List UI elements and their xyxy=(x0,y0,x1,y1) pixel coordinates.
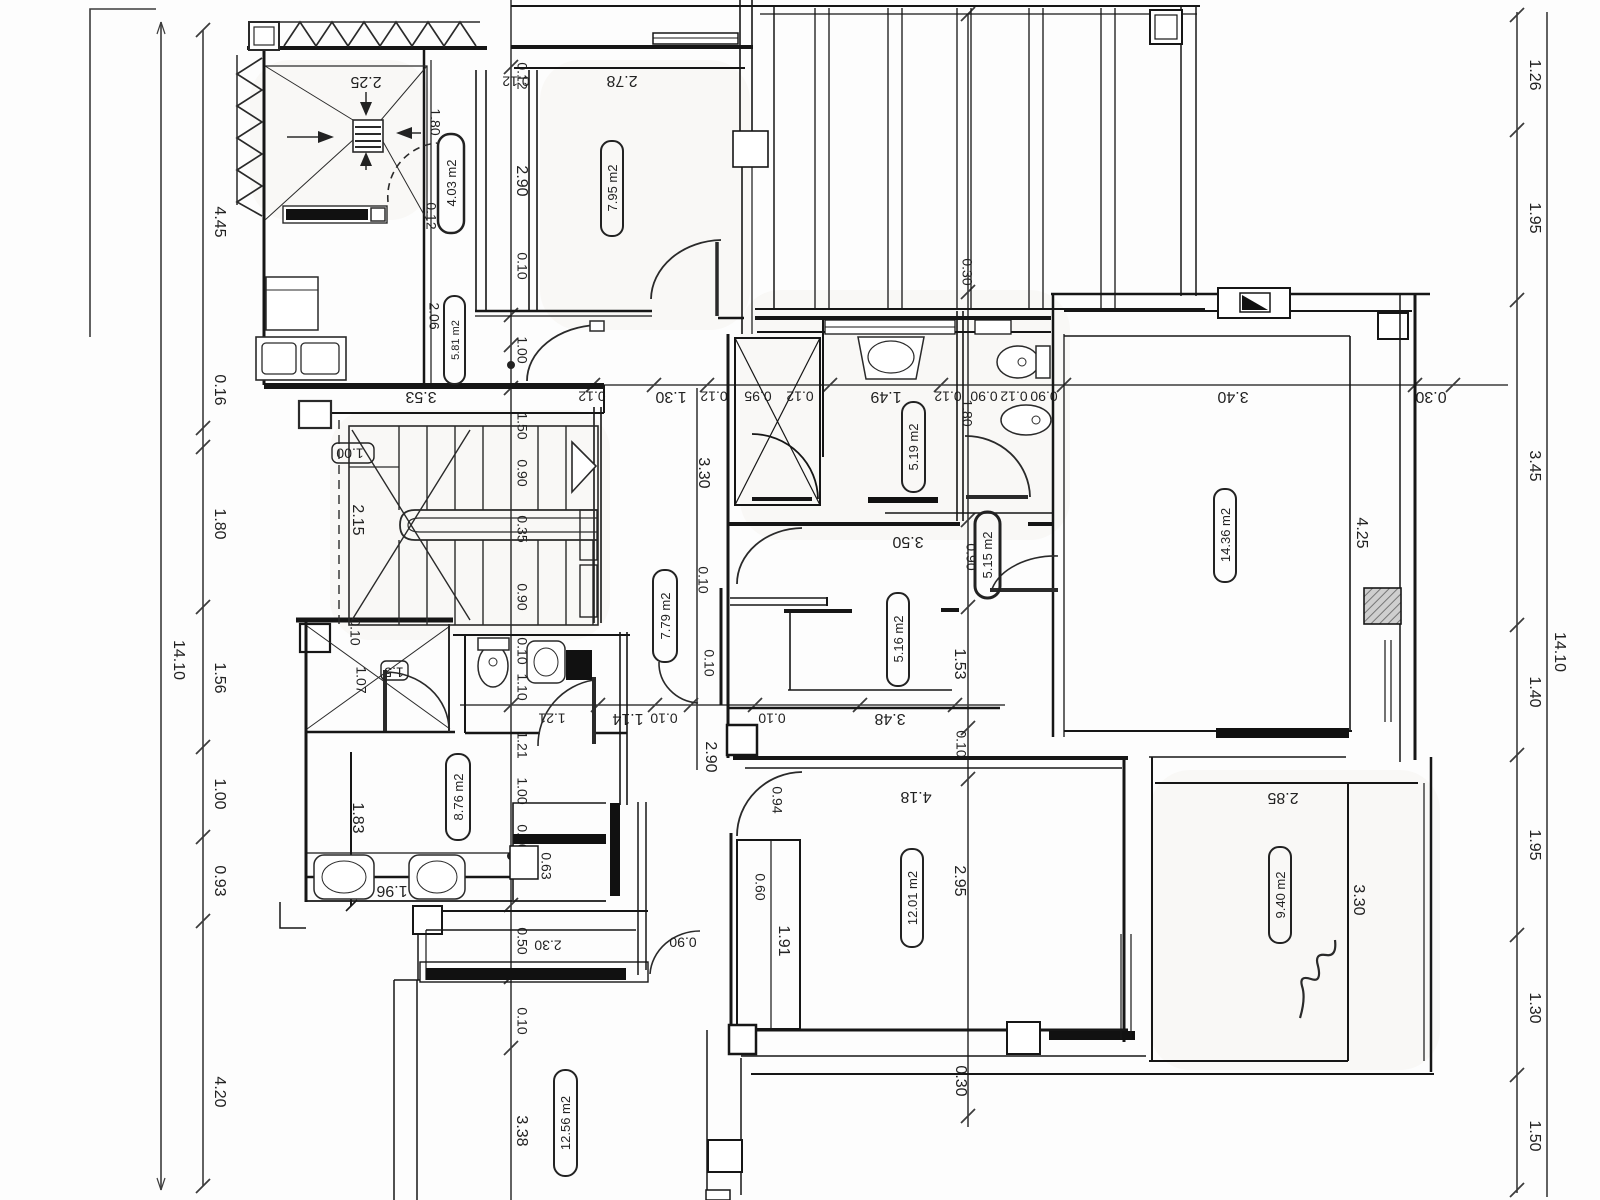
hall walls right of storage xyxy=(637,802,639,975)
big room hatch square xyxy=(1364,588,1401,624)
wall stub x604 xyxy=(603,385,605,413)
pillar under wall xyxy=(299,401,331,428)
svg-text:12.56 m2: 12.56 m2 xyxy=(558,1096,573,1150)
wc room left wall xyxy=(464,635,466,733)
svg-text:3.53: 3.53 xyxy=(405,388,436,405)
wall stub left of 7.95 right wall xyxy=(718,317,744,320)
wc door leaf and arc xyxy=(592,677,596,744)
porch black band xyxy=(426,968,626,980)
svg-text:12.01 m2: 12.01 m2 xyxy=(905,871,920,925)
stairs middle rail xyxy=(400,510,598,540)
deck joist 2 xyxy=(887,8,889,308)
terrace arrow right xyxy=(404,132,421,134)
svg-text:5.81 m2: 5.81 m2 xyxy=(450,320,462,360)
wardrobe xyxy=(737,840,800,1029)
porch planter box xyxy=(413,906,442,934)
svg-text:1.14: 1.14 xyxy=(612,710,643,727)
wall under hall (y311) xyxy=(475,310,652,313)
room label 14.36 m2 xyxy=(1214,489,1236,582)
svg-text:0.12: 0.12 xyxy=(1000,388,1027,404)
big room inner top line xyxy=(1064,335,1350,337)
room label 5.19 m2 xyxy=(902,402,925,492)
lower rooms top wall B xyxy=(453,634,630,636)
room label 7.95 m2 xyxy=(601,141,623,236)
stairs X cross xyxy=(352,430,470,620)
svg-text:0.12: 0.12 xyxy=(502,73,529,89)
bath bidet xyxy=(1001,405,1051,435)
svg-text:1.80: 1.80 xyxy=(427,108,443,135)
room 9.40 outer right wall xyxy=(1430,757,1433,1072)
big room inner right line xyxy=(1349,336,1351,731)
room 9.40 top lines xyxy=(1149,756,1346,758)
svg-text:14.10: 14.10 xyxy=(170,640,187,680)
deck joist 5 xyxy=(1100,8,1102,308)
deck joist 1 xyxy=(814,8,816,308)
svg-text:2.15: 2.15 xyxy=(349,504,366,535)
right dimension chain line xyxy=(1516,12,1518,1193)
svg-text:1.83: 1.83 xyxy=(349,802,366,833)
porch top wall xyxy=(442,910,648,912)
window sill band lower middle xyxy=(1049,1031,1135,1040)
room label 12.56 m2 xyxy=(554,1070,577,1176)
black tick on dim line xyxy=(941,608,959,612)
terrace arrow top xyxy=(365,92,367,106)
terrace bench xyxy=(283,206,387,223)
svg-text:1.80: 1.80 xyxy=(211,508,228,539)
terrace right wall xyxy=(423,48,426,385)
page corner mark top-left xyxy=(90,9,156,337)
porch door arc xyxy=(650,931,700,974)
corridor vertical dim line xyxy=(696,388,698,770)
svg-text:1.00: 1.00 xyxy=(514,336,530,363)
stairs landing line xyxy=(349,466,399,468)
wc room right wall double xyxy=(619,632,621,805)
room label 5.16 m2 xyxy=(887,593,909,686)
svg-text:3.38: 3.38 xyxy=(513,1115,530,1146)
label 1.00 stairs box xyxy=(332,443,374,463)
kitchen sink unit xyxy=(256,337,346,380)
terrace X diagonal 1 xyxy=(265,66,427,220)
wc toilet lower xyxy=(478,645,508,687)
svg-text:0.10: 0.10 xyxy=(701,649,717,676)
deck joist 4 xyxy=(1028,8,1030,308)
room label 5.81 m2 xyxy=(444,296,465,384)
svg-text:0.63: 0.63 xyxy=(538,852,554,879)
svg-text:3.30: 3.30 xyxy=(695,457,712,488)
kitchen cabinet xyxy=(266,277,318,330)
bath shelf band xyxy=(868,497,938,503)
svg-text:2.06: 2.06 xyxy=(426,302,442,329)
room 5.16 shelf lines xyxy=(730,597,827,599)
svg-text:1.50: 1.50 xyxy=(1526,1120,1543,1151)
center-right vertical dimension line xyxy=(967,14,969,1127)
overall left dimension line 14.10 xyxy=(160,22,162,1190)
room label 4.03 m2 xyxy=(438,134,464,233)
corridor right wall lower xyxy=(720,588,723,705)
room 12.01 bottom wall xyxy=(744,1029,1128,1032)
big room bottom wall xyxy=(1064,730,1352,732)
shower door arc xyxy=(752,434,818,499)
corridor left wall double xyxy=(593,407,595,623)
svg-text:0.30: 0.30 xyxy=(959,258,975,285)
room label 9.40 m2 xyxy=(1269,847,1291,943)
svg-text:0.30: 0.30 xyxy=(1415,388,1446,405)
X room right wall xyxy=(448,624,450,732)
svg-text:1.96: 1.96 xyxy=(376,882,407,899)
svg-text:1.26: 1.26 xyxy=(1526,59,1543,90)
room label 5.15 m2 xyxy=(975,512,1000,598)
svg-text:3.40: 3.40 xyxy=(1217,388,1248,405)
lower terrace right lines xyxy=(706,1030,708,1200)
svg-text:1.53: 1.53 xyxy=(951,648,968,679)
svg-text:5.16 m2: 5.16 m2 xyxy=(891,616,906,663)
svg-text:7.95 m2: 7.95 m2 xyxy=(605,165,620,212)
svg-text:4.20: 4.20 xyxy=(211,1076,228,1107)
big room left wall xyxy=(1052,294,1055,737)
svg-text:0.12: 0.12 xyxy=(578,388,605,404)
left chain ticks xyxy=(196,23,210,1193)
svg-text:1.00: 1.00 xyxy=(211,778,228,809)
svg-text:1.00: 1.00 xyxy=(514,777,530,804)
svg-text:1.80: 1.80 xyxy=(959,399,975,426)
big room window sill band xyxy=(1216,728,1349,738)
bath small partition stub xyxy=(822,320,824,457)
svg-text:4.25: 4.25 xyxy=(1353,517,1370,548)
center vline ticks xyxy=(504,60,518,1055)
shower room left wall xyxy=(727,334,730,524)
svg-text:1.40: 1.40 xyxy=(1526,676,1543,707)
svg-text:5.15 m2: 5.15 m2 xyxy=(980,532,995,579)
svg-text:1.21: 1.21 xyxy=(514,731,530,758)
svg-text:0.90: 0.90 xyxy=(514,583,530,610)
svg-text:0.10: 0.10 xyxy=(514,1007,530,1034)
room 12.01 corner post xyxy=(727,725,757,755)
corridor furniture xyxy=(580,510,597,560)
big room right outer wall xyxy=(1414,294,1417,760)
svg-text:2.90: 2.90 xyxy=(513,165,530,196)
svg-text:1.91: 1.91 xyxy=(775,925,792,956)
svg-text:0.93: 0.93 xyxy=(211,865,228,896)
stairs treads lower xyxy=(399,540,593,625)
porch step left xyxy=(280,902,306,928)
deck joist 3 xyxy=(956,8,958,308)
storage outline xyxy=(513,803,606,900)
svg-text:0.16: 0.16 xyxy=(211,374,228,405)
chimney square on deck xyxy=(1150,10,1182,44)
svg-text:1.95: 1.95 xyxy=(1526,202,1543,233)
svg-text:14.36 m2: 14.36 m2 xyxy=(1218,508,1233,562)
stairs dashed line xyxy=(338,420,340,628)
svg-text:3.30: 3.30 xyxy=(1350,884,1367,915)
big room top wall outer xyxy=(1051,293,1430,296)
room 7.95 top wall band xyxy=(511,45,753,49)
room 12.01 right wall xyxy=(1123,758,1126,1042)
lower-left small rect xyxy=(708,1140,742,1172)
svg-text:0.10: 0.10 xyxy=(514,252,530,279)
small room X cross xyxy=(307,626,450,729)
svg-text:0.10: 0.10 xyxy=(347,618,363,645)
main thick wall at y=385 xyxy=(264,383,604,389)
room 9.40 left wall xyxy=(1151,757,1153,1061)
wc black box xyxy=(566,650,592,680)
room label 12.01 m2 xyxy=(901,849,923,947)
porch left edge lines xyxy=(417,934,419,980)
left dimension chain line xyxy=(202,30,204,1186)
svg-text:3.48: 3.48 xyxy=(874,710,905,727)
svg-text:1.49: 1.49 xyxy=(870,388,901,405)
horizontal dimension chain upper xyxy=(265,384,1508,386)
deck bottom edge xyxy=(755,308,1205,310)
lower rooms top wall A xyxy=(296,618,453,623)
zigzag hatch top xyxy=(284,22,476,46)
room 7.95 top window xyxy=(653,33,738,44)
X room / wc bottom wall xyxy=(306,731,455,734)
wall between bathrooms xyxy=(956,311,958,521)
svg-text:0.12: 0.12 xyxy=(700,388,727,404)
room label 7.79 m2 xyxy=(653,570,677,662)
chimney box top-left xyxy=(249,22,279,50)
svg-text:1.56: 1.56 xyxy=(211,662,228,693)
svg-text:1.30: 1.30 xyxy=(1526,992,1543,1023)
bath toilet top xyxy=(997,346,1039,378)
stairs direction arrow xyxy=(572,442,596,492)
svg-text:5.19 m2: 5.19 m2 xyxy=(906,424,921,471)
hall door arc A xyxy=(527,325,597,381)
svg-text:0.10: 0.10 xyxy=(953,730,969,757)
svg-text:4.45: 4.45 xyxy=(211,206,228,237)
stairwell top wall inner line xyxy=(299,412,604,414)
big room vent box xyxy=(1218,288,1290,318)
terrace left outer wall xyxy=(263,48,266,385)
dim line x351 in 1.83 room xyxy=(350,752,352,906)
room 12.01 top wall xyxy=(733,756,1128,760)
wc sink lower xyxy=(527,641,565,683)
terrace top wall xyxy=(247,46,487,50)
svg-text:2.30: 2.30 xyxy=(534,937,561,953)
room 5.16 left wall xyxy=(727,524,730,758)
room label 8.76 m2 xyxy=(446,754,470,840)
washbasin counter lines xyxy=(306,852,530,854)
X room door leaf and arc xyxy=(383,670,387,731)
left outer wall lower xyxy=(305,620,308,902)
stairs outline xyxy=(349,426,598,625)
svg-text:4.18: 4.18 xyxy=(900,788,931,805)
svg-text:2.25: 2.25 xyxy=(350,73,381,90)
handwritten 123 squiggle xyxy=(1300,940,1335,1018)
bathroom top wall window 1 xyxy=(825,320,955,334)
svg-text:1.00: 1.00 xyxy=(336,445,363,461)
storage black bar xyxy=(610,803,620,896)
svg-text:0.10: 0.10 xyxy=(650,710,677,726)
bathrooms top wall band xyxy=(755,316,1051,320)
terrace arrow left xyxy=(287,136,326,138)
storage black band xyxy=(513,834,606,844)
svg-text:0.90: 0.90 xyxy=(669,934,696,950)
svg-text:14.10: 14.10 xyxy=(1551,632,1568,672)
svg-text:1.95: 1.95 xyxy=(1526,829,1543,860)
svg-text:2.85: 2.85 xyxy=(1267,789,1298,806)
svg-text:2.90: 2.90 xyxy=(702,741,719,772)
bathrooms bottom wall xyxy=(728,522,960,526)
room 9.40 bottom lines xyxy=(1149,1060,1348,1062)
room 7.95 left wall double xyxy=(528,70,530,311)
room 7.95 right wall double xyxy=(739,0,741,131)
svg-text:1.21: 1.21 xyxy=(538,710,565,726)
terrace arrow bottom xyxy=(365,158,367,170)
hall partition wall double xyxy=(475,70,477,311)
svg-text:1.5: 1.5 xyxy=(384,664,404,680)
zigzag hatch left rail xyxy=(236,55,238,205)
zigzag hatch left xyxy=(237,58,262,216)
room 12.01 bottom window xyxy=(1007,1022,1040,1054)
svg-text:3.45: 3.45 xyxy=(1526,450,1543,481)
wall box (radiator) xyxy=(733,131,768,167)
deck left edge xyxy=(773,6,775,309)
svg-text:1.07: 1.07 xyxy=(353,666,369,693)
svg-text:0.35: 0.35 xyxy=(514,515,530,542)
svg-text:4.03 m2: 4.03 m2 xyxy=(444,160,459,207)
deck right edge double xyxy=(1180,6,1182,296)
room 12.01 left wall xyxy=(730,833,733,1030)
room 9.40 inner right wall xyxy=(1347,783,1349,1061)
corner joint square xyxy=(1378,313,1408,339)
terrace X diagonal 2 xyxy=(265,66,427,220)
big room right window band xyxy=(1384,640,1386,722)
bedroom 5.16 door arc xyxy=(737,528,802,584)
label 1.5 box outline xyxy=(381,661,408,680)
svg-text:3.50: 3.50 xyxy=(892,533,923,550)
room 5.16 bottom wall xyxy=(728,707,1000,710)
svg-text:1.30: 1.30 xyxy=(655,388,686,405)
svg-text:0.50: 0.50 xyxy=(514,927,530,954)
terrace inner border xyxy=(265,66,427,220)
shower box xyxy=(735,338,820,505)
long center vertical dimension line xyxy=(510,0,512,1200)
inner line above 3.50 label xyxy=(885,512,1053,514)
svg-text:0.90: 0.90 xyxy=(514,459,530,486)
left window band of 9.40 xyxy=(1120,934,1122,1039)
svg-text:0.10: 0.10 xyxy=(758,710,785,726)
room 7.95 door arc xyxy=(651,240,721,299)
corridor door arc xyxy=(659,662,698,703)
room 5.16 black stub xyxy=(784,609,852,613)
lower terrace left lines xyxy=(393,980,395,1200)
pillar at wall A left xyxy=(300,624,330,652)
room 12.01 door arc xyxy=(737,772,802,836)
svg-text:2.95: 2.95 xyxy=(951,865,968,896)
room 5.16 bed lines xyxy=(789,611,791,690)
horizontal dimension chain middle xyxy=(460,704,1005,706)
washbasin 2 xyxy=(409,855,465,899)
bathroom top wall window 2 xyxy=(975,320,1011,334)
svg-text:0.10: 0.10 xyxy=(695,566,711,593)
washbasin 1 xyxy=(314,855,374,899)
svg-text:0.12: 0.12 xyxy=(423,202,439,229)
deck top edge line xyxy=(511,5,1200,7)
terrace door dashed arc xyxy=(388,143,437,202)
corner post bottom-left of 12.01 xyxy=(729,1025,756,1054)
storage small box xyxy=(510,846,538,879)
big room door leaf and arc xyxy=(990,588,1058,592)
svg-text:7.79 m2: 7.79 m2 xyxy=(658,593,673,640)
svg-text:2.78: 2.78 xyxy=(606,72,637,89)
stairs treads upper xyxy=(399,426,566,510)
svg-text:0.94: 0.94 xyxy=(769,786,785,813)
svg-text:0.30: 0.30 xyxy=(952,1065,969,1096)
bath sink top xyxy=(858,337,924,379)
terrace center drain xyxy=(353,120,383,152)
bidet bath door arc xyxy=(965,436,1030,497)
svg-text:0.90: 0.90 xyxy=(963,543,979,570)
svg-text:9.40 m2: 9.40 m2 xyxy=(1273,872,1288,919)
svg-text:8.76 m2: 8.76 m2 xyxy=(451,774,466,821)
svg-text:0.60: 0.60 xyxy=(752,873,768,900)
zigzag hatch top rails xyxy=(280,21,480,23)
